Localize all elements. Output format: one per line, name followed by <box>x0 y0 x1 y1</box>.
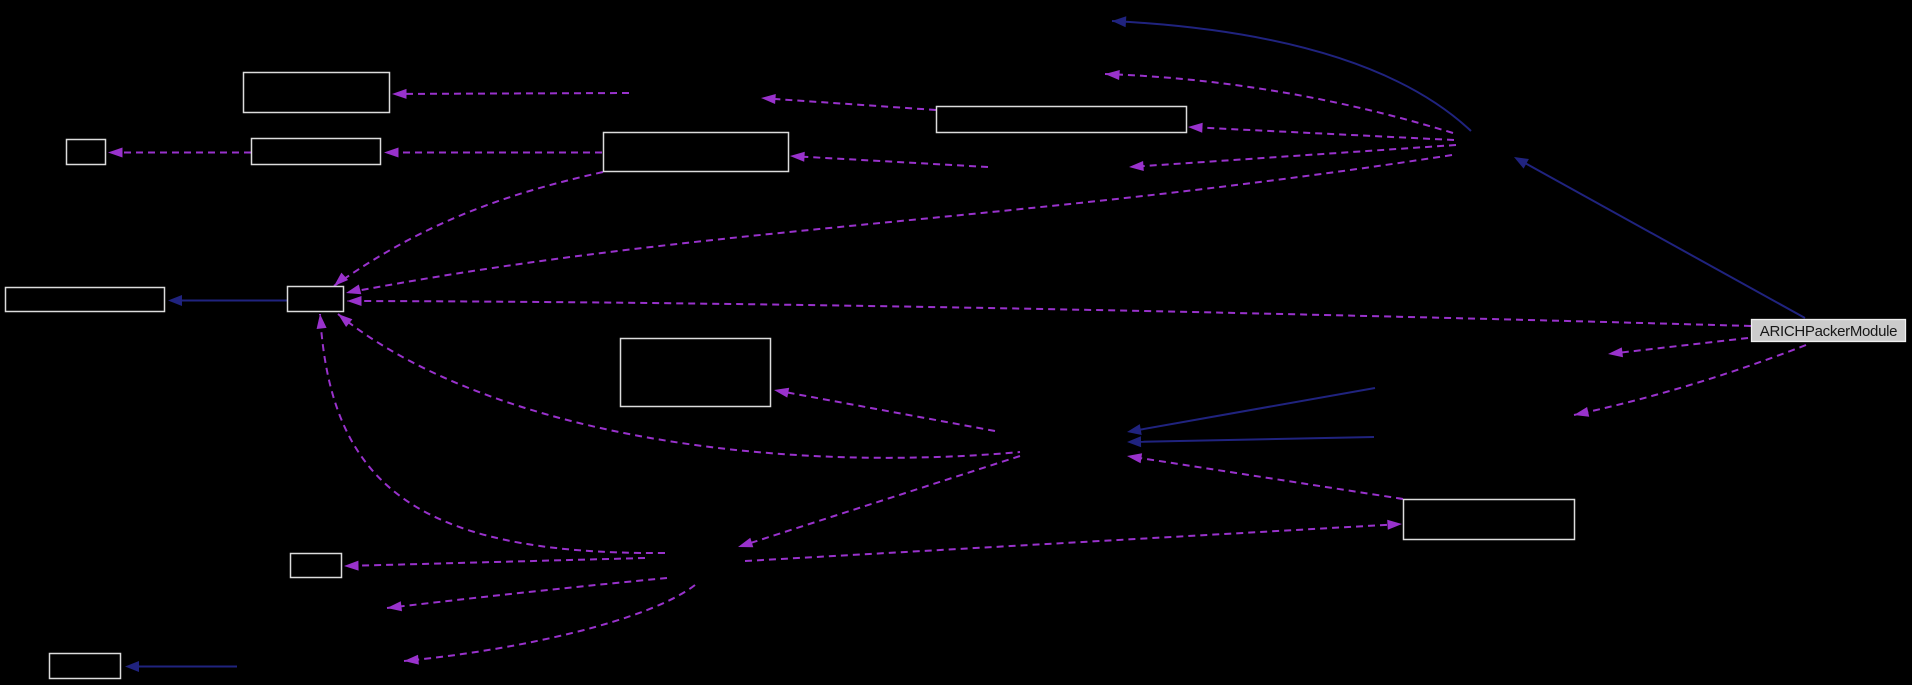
node J <box>50 654 121 679</box>
node H <box>621 339 771 407</box>
dashed edge: node E to hidden node X2 <box>761 94 936 110</box>
dashed edge: hub R to hidden node X1 <box>1129 145 1456 171</box>
blue edge: into node J <box>125 661 237 672</box>
dashed edge: hub 2 to hub 1 <box>738 456 1020 547</box>
dashed edge: node D to node C <box>384 148 602 158</box>
node C <box>252 139 381 165</box>
node ARICHPackerModule (central, highlighted) <box>1752 320 1906 342</box>
dashed edge: ARICHPackerModule to hidden node E1 <box>1608 338 1748 357</box>
dashed edge: hub 1 to node G bottom <box>317 314 665 553</box>
svg-text:ARICHPackerModule: ARICHPackerModule <box>1760 323 1897 340</box>
node K <box>1404 500 1575 540</box>
dashed edge: hidden node X1 to node D <box>790 152 988 167</box>
blue edge: hub R to hidden node top <box>1112 16 1471 131</box>
node A <box>244 73 390 113</box>
dashed edge: ARICHPackerModule to node G <box>347 296 1751 326</box>
dashed edge: hub 2 to node G bottom-right corner <box>338 314 1020 458</box>
node F <box>6 288 165 312</box>
dashed edge: hub R to node E <box>1188 123 1454 140</box>
blue edge: node G to node F <box>168 295 287 306</box>
dashed edge: node D to node G top <box>334 172 603 286</box>
dashed edge: hub 2 to node H <box>774 388 995 431</box>
dashed edge: ARICHPackerModule to hidden node E2 <box>1574 345 1806 417</box>
dashed edge: hidden node X2 to node A <box>392 89 629 99</box>
blue edge: upper into hidden hub 2 <box>1127 388 1375 435</box>
dashed edge: hub R to node G right-top corner <box>346 155 1452 294</box>
dashed edge: hub 1 to hidden node SW1 <box>387 578 667 611</box>
dashed edge: node K to hidden hub 2 <box>1127 453 1403 499</box>
node G <box>288 287 344 312</box>
node D <box>604 133 789 172</box>
node E <box>937 107 1187 133</box>
node B <box>67 140 106 165</box>
blue edge: from ARICHPackerModule top corner to hub R <box>1514 157 1805 318</box>
dashed edge: hub 1 to node I <box>344 558 645 571</box>
node I <box>291 554 342 578</box>
dashed edge: hub 1 to hidden node SW2 <box>404 585 695 665</box>
dashed edge: hub R to hidden node NW <box>1105 70 1453 133</box>
blue edge: lower into hidden hub 2 <box>1127 436 1374 447</box>
dashed edge: hub 1 to node K <box>745 520 1402 561</box>
dashed edge: node C to node B <box>108 148 251 158</box>
